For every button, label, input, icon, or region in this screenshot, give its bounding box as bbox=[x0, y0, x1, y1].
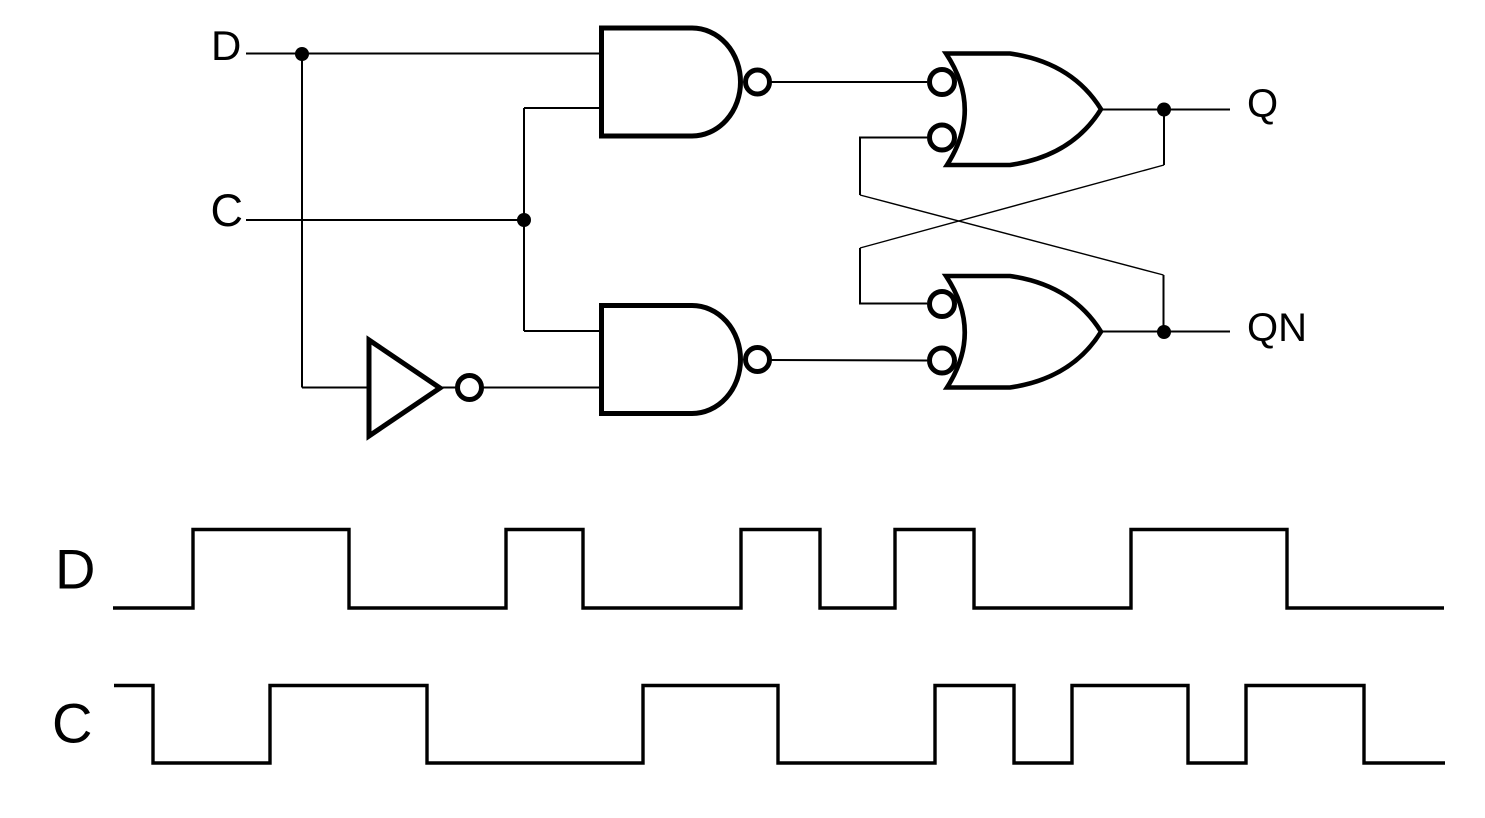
svg-text:QN: QN bbox=[1247, 306, 1307, 350]
svg-text:D: D bbox=[211, 22, 241, 69]
svg-text:C: C bbox=[211, 185, 244, 236]
svg-text:D: D bbox=[55, 538, 95, 601]
svg-text:Q: Q bbox=[1247, 82, 1278, 126]
svg-text:C: C bbox=[52, 692, 92, 755]
